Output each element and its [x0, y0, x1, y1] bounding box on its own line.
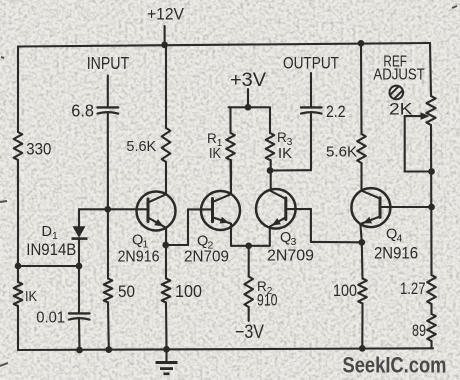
svg-text:IK: IK	[278, 145, 292, 162]
svg-text:INPUT: INPUT	[87, 53, 130, 73]
svg-text:2N709: 2N709	[184, 248, 229, 265]
svg-text:100: 100	[333, 282, 357, 300]
svg-text:D: D	[42, 224, 52, 240]
svg-text:1.27: 1.27	[400, 280, 426, 298]
svg-text:5.6K: 5.6K	[126, 139, 156, 155]
svg-text:0.01: 0.01	[36, 310, 65, 327]
svg-text:5.6K: 5.6K	[326, 144, 357, 161]
svg-text:330: 330	[26, 140, 51, 159]
svg-text:R: R	[277, 130, 287, 145]
svg-text:2.2: 2.2	[326, 102, 346, 121]
svg-text:2N916: 2N916	[374, 244, 418, 262]
svg-text:4: 4	[396, 233, 402, 245]
svg-text:IK: IK	[209, 145, 221, 162]
svg-text:+12V: +12V	[147, 6, 184, 24]
svg-text:OUTPUT: OUTPUT	[283, 54, 339, 73]
svg-text:IK: IK	[25, 288, 37, 305]
svg-text:2N916: 2N916	[118, 248, 160, 265]
svg-text:SeekIC.com: SeekIC.com	[343, 352, 447, 377]
svg-text:2N709: 2N709	[267, 247, 314, 264]
svg-text:ADJUST: ADJUST	[373, 67, 425, 84]
svg-text:100: 100	[175, 281, 202, 301]
svg-text:910: 910	[257, 290, 278, 309]
svg-text:R: R	[207, 131, 217, 146]
svg-text:+3V: +3V	[230, 70, 266, 91]
svg-text:89: 89	[412, 321, 426, 340]
svg-text:IN914B: IN914B	[26, 240, 76, 259]
svg-text:6.8: 6.8	[71, 100, 94, 120]
svg-text:50: 50	[118, 283, 135, 301]
svg-text:−3V: −3V	[235, 322, 264, 343]
svg-text:2K: 2K	[389, 99, 413, 118]
